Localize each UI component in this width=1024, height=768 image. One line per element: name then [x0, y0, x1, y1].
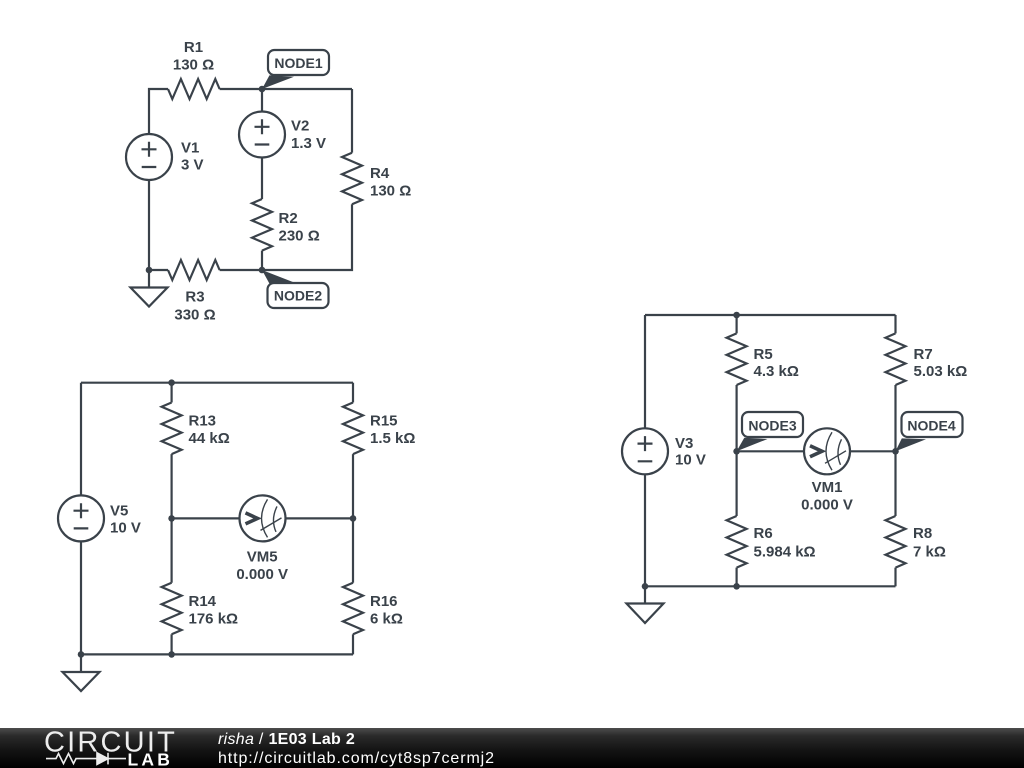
svg-text:V1: V1 [181, 140, 199, 157]
node NODE3 badge [742, 412, 803, 437]
wire right branch between R7 and NODE4 [894, 385, 896, 451]
svg-text:NODE3: NODE3 [748, 418, 796, 434]
svg-text:5.984 kΩ: 5.984 kΩ [754, 544, 816, 561]
CircuitLab logo schematic glyph (resistor + diode) [46, 753, 126, 765]
svg-text:LAB: LAB [128, 750, 174, 768]
R7 label [914, 346, 968, 380]
voltage source V2 [239, 112, 285, 158]
wire right branch top stub [894, 315, 896, 333]
resistor R6 [727, 516, 747, 568]
R16 label [370, 593, 403, 628]
ground (circuit 1) [131, 270, 168, 307]
svg-text:R3: R3 [185, 289, 204, 306]
junction dot bottom of R14 branch [168, 651, 175, 658]
wire mid branch top stub [735, 315, 737, 333]
wire mid branch top stub [171, 383, 173, 403]
resistor R4 [342, 153, 362, 205]
svg-text:R7: R7 [914, 346, 933, 363]
V5 label [110, 503, 141, 537]
wire mid branch between R5 and NODE3 [735, 385, 737, 451]
junction node NODE2 dot [259, 267, 266, 274]
wire right branch top [351, 89, 353, 153]
wire right branch between R15 and mid rail [352, 454, 354, 518]
junction dot mid rail left [168, 515, 175, 522]
R1 label [173, 39, 214, 74]
svg-text:NODE2: NODE2 [274, 288, 322, 304]
svg-text:V2: V2 [291, 118, 309, 135]
svg-text:230 Ω: 230 Ω [279, 228, 320, 245]
svg-text:44 kΩ: 44 kΩ [189, 430, 230, 447]
voltmeter VM1 [804, 428, 850, 474]
node NODE2 flag wedge [262, 270, 294, 284]
junction dot bottom of R6 branch [733, 583, 740, 590]
node NODE3 flag wedge [737, 438, 768, 452]
R14 label [189, 593, 239, 628]
R4 label [370, 165, 411, 200]
VM1 label [801, 479, 853, 514]
resistor R15 [343, 403, 363, 455]
wire left branch bottom (V5 to bottom rail) [80, 541, 82, 655]
junction node NODE4 dot [892, 448, 899, 455]
wire mid branch between mid rail and R14 [171, 518, 173, 582]
wire V2 bottom to R2 [261, 157, 263, 199]
resistor R2 [252, 199, 272, 251]
svg-text:176 kΩ: 176 kΩ [189, 611, 239, 628]
wire top-left horizontal from V1 top corner to R1 [149, 89, 168, 135]
svg-text:R13: R13 [189, 413, 217, 430]
ground (circuit 3) [627, 586, 664, 623]
R3 label [174, 289, 215, 324]
junction dot top of R13 branch [168, 379, 175, 386]
wire left branch top (V3) [644, 315, 646, 429]
R5 label [754, 346, 799, 380]
svg-text:R8: R8 [913, 525, 932, 542]
svg-text:1.3 V: 1.3 V [291, 135, 326, 152]
svg-text:R4: R4 [370, 165, 390, 182]
wire left branch bottom (V3 to bottom rail) [644, 474, 646, 587]
svg-text:V3: V3 [675, 435, 693, 452]
svg-text:NODE1: NODE1 [274, 55, 322, 71]
V2 label [291, 118, 326, 153]
R8 label [913, 525, 946, 561]
junction dot at ground corner circuit 1 [146, 267, 153, 274]
wire mid branch between R13 and mid rail [171, 454, 173, 518]
svg-text:R16: R16 [370, 593, 398, 610]
V3 label [675, 435, 706, 469]
svg-text:VM1: VM1 [812, 479, 843, 496]
wire right branch between mid rail and R16 [352, 518, 354, 582]
R2 label [279, 210, 320, 245]
svg-text:5.03 kΩ: 5.03 kΩ [914, 363, 968, 380]
junction node NODE1 dot [259, 86, 266, 93]
R13 label [189, 413, 230, 448]
resistor R3 [168, 260, 220, 280]
wire left branch top (V5) [80, 383, 82, 496]
svg-text:10 V: 10 V [110, 520, 141, 537]
wire R3 to ground corner [149, 269, 168, 271]
svg-text:130 Ω: 130 Ω [370, 183, 411, 200]
svg-text:6 kΩ: 6 kΩ [370, 611, 403, 628]
voltage source V5 [58, 495, 104, 541]
footer background [0, 728, 1024, 768]
svg-text:330 Ω: 330 Ω [174, 306, 215, 323]
svg-text:1.5 kΩ: 1.5 kΩ [370, 430, 415, 447]
junction dot bottom-left ground [78, 651, 85, 658]
svg-text:0.000 V: 0.000 V [801, 497, 853, 514]
node NODE4 flag wedge [896, 438, 927, 451]
ground (circuit 2) [63, 654, 100, 691]
svg-text:7 kΩ: 7 kΩ [913, 544, 946, 561]
wire mid rail left (NODE3 to VM1) [737, 450, 805, 452]
junction dot bottom-left ground circuit 3 [642, 583, 649, 590]
voltage source V3 [622, 428, 668, 474]
node NODE1 badge [268, 50, 329, 75]
svg-text:VM5: VM5 [247, 549, 278, 566]
svg-text:130 Ω: 130 Ω [173, 57, 214, 74]
resistor R16 [343, 583, 363, 635]
svg-text:10 V: 10 V [675, 452, 706, 469]
wire top rail circuit 2 [81, 382, 353, 384]
resistor R5 [727, 333, 747, 385]
R15 label [370, 413, 415, 448]
wire mid rail right (VM1 to NODE4) [850, 450, 896, 452]
svg-text:0.000 V: 0.000 V [236, 566, 288, 583]
voltage source V1 [126, 134, 172, 180]
svg-text:4.3 kΩ: 4.3 kΩ [754, 363, 799, 380]
wire bottom rail circuit 2 [81, 653, 353, 655]
svg-text:http://circuitlab.com/cyt8sp7c: http://circuitlab.com/cyt8sp7cermj2 [218, 750, 495, 767]
R6 label [754, 525, 816, 561]
V1 label [181, 140, 204, 174]
voltmeter VM5 [240, 495, 286, 541]
junction dot mid rail right [350, 515, 357, 522]
wire right branch between NODE4 and R8 [894, 451, 896, 516]
wire mid branch bottom stub [171, 634, 173, 654]
svg-text:R2: R2 [279, 210, 298, 227]
svg-text:R5: R5 [754, 346, 773, 363]
svg-text:V5: V5 [110, 503, 128, 520]
wire mid rail right (VM5 to right branch) [285, 517, 353, 519]
wire R2 bottom stub [261, 251, 263, 270]
wire mid branch bottom stub [735, 568, 737, 587]
wire mid rail left (to VM5) [172, 517, 240, 519]
VM5 label [236, 549, 288, 584]
junction node NODE3 dot [733, 448, 740, 455]
wire bottom rail circuit 3 [645, 585, 896, 587]
svg-text:R1: R1 [184, 39, 203, 56]
resistor R8 [886, 516, 906, 568]
resistor R14 [162, 583, 182, 635]
wire V2 top stub [261, 89, 263, 112]
node NODE2 badge [268, 283, 329, 308]
wire right branch bottom stub [894, 568, 896, 587]
svg-text:R14: R14 [189, 593, 217, 610]
resistor R1 [168, 79, 220, 99]
wire R1 to top-right corner [220, 88, 352, 90]
svg-text:R15: R15 [370, 413, 398, 430]
wire right branch bottom [220, 204, 352, 270]
junction dot top of R5 branch [733, 312, 740, 319]
node NODE1 flag wedge [262, 75, 294, 89]
resistor R7 [886, 333, 906, 385]
svg-text:NODE4: NODE4 [907, 418, 955, 434]
svg-text:R6: R6 [754, 525, 773, 542]
wire right branch bottom stub [352, 634, 354, 654]
wire V1 bottom to bottom-left corner [148, 180, 150, 271]
resistor R13 [162, 403, 182, 455]
svg-text:risha / 1E03 Lab 2: risha / 1E03 Lab 2 [218, 731, 355, 748]
wire right branch top stub [352, 383, 354, 403]
svg-text:3 V: 3 V [181, 157, 204, 174]
wire top rail circuit 3 [645, 314, 896, 316]
wire mid branch between NODE3 and R6 [735, 451, 737, 516]
node NODE4 badge [902, 412, 963, 437]
